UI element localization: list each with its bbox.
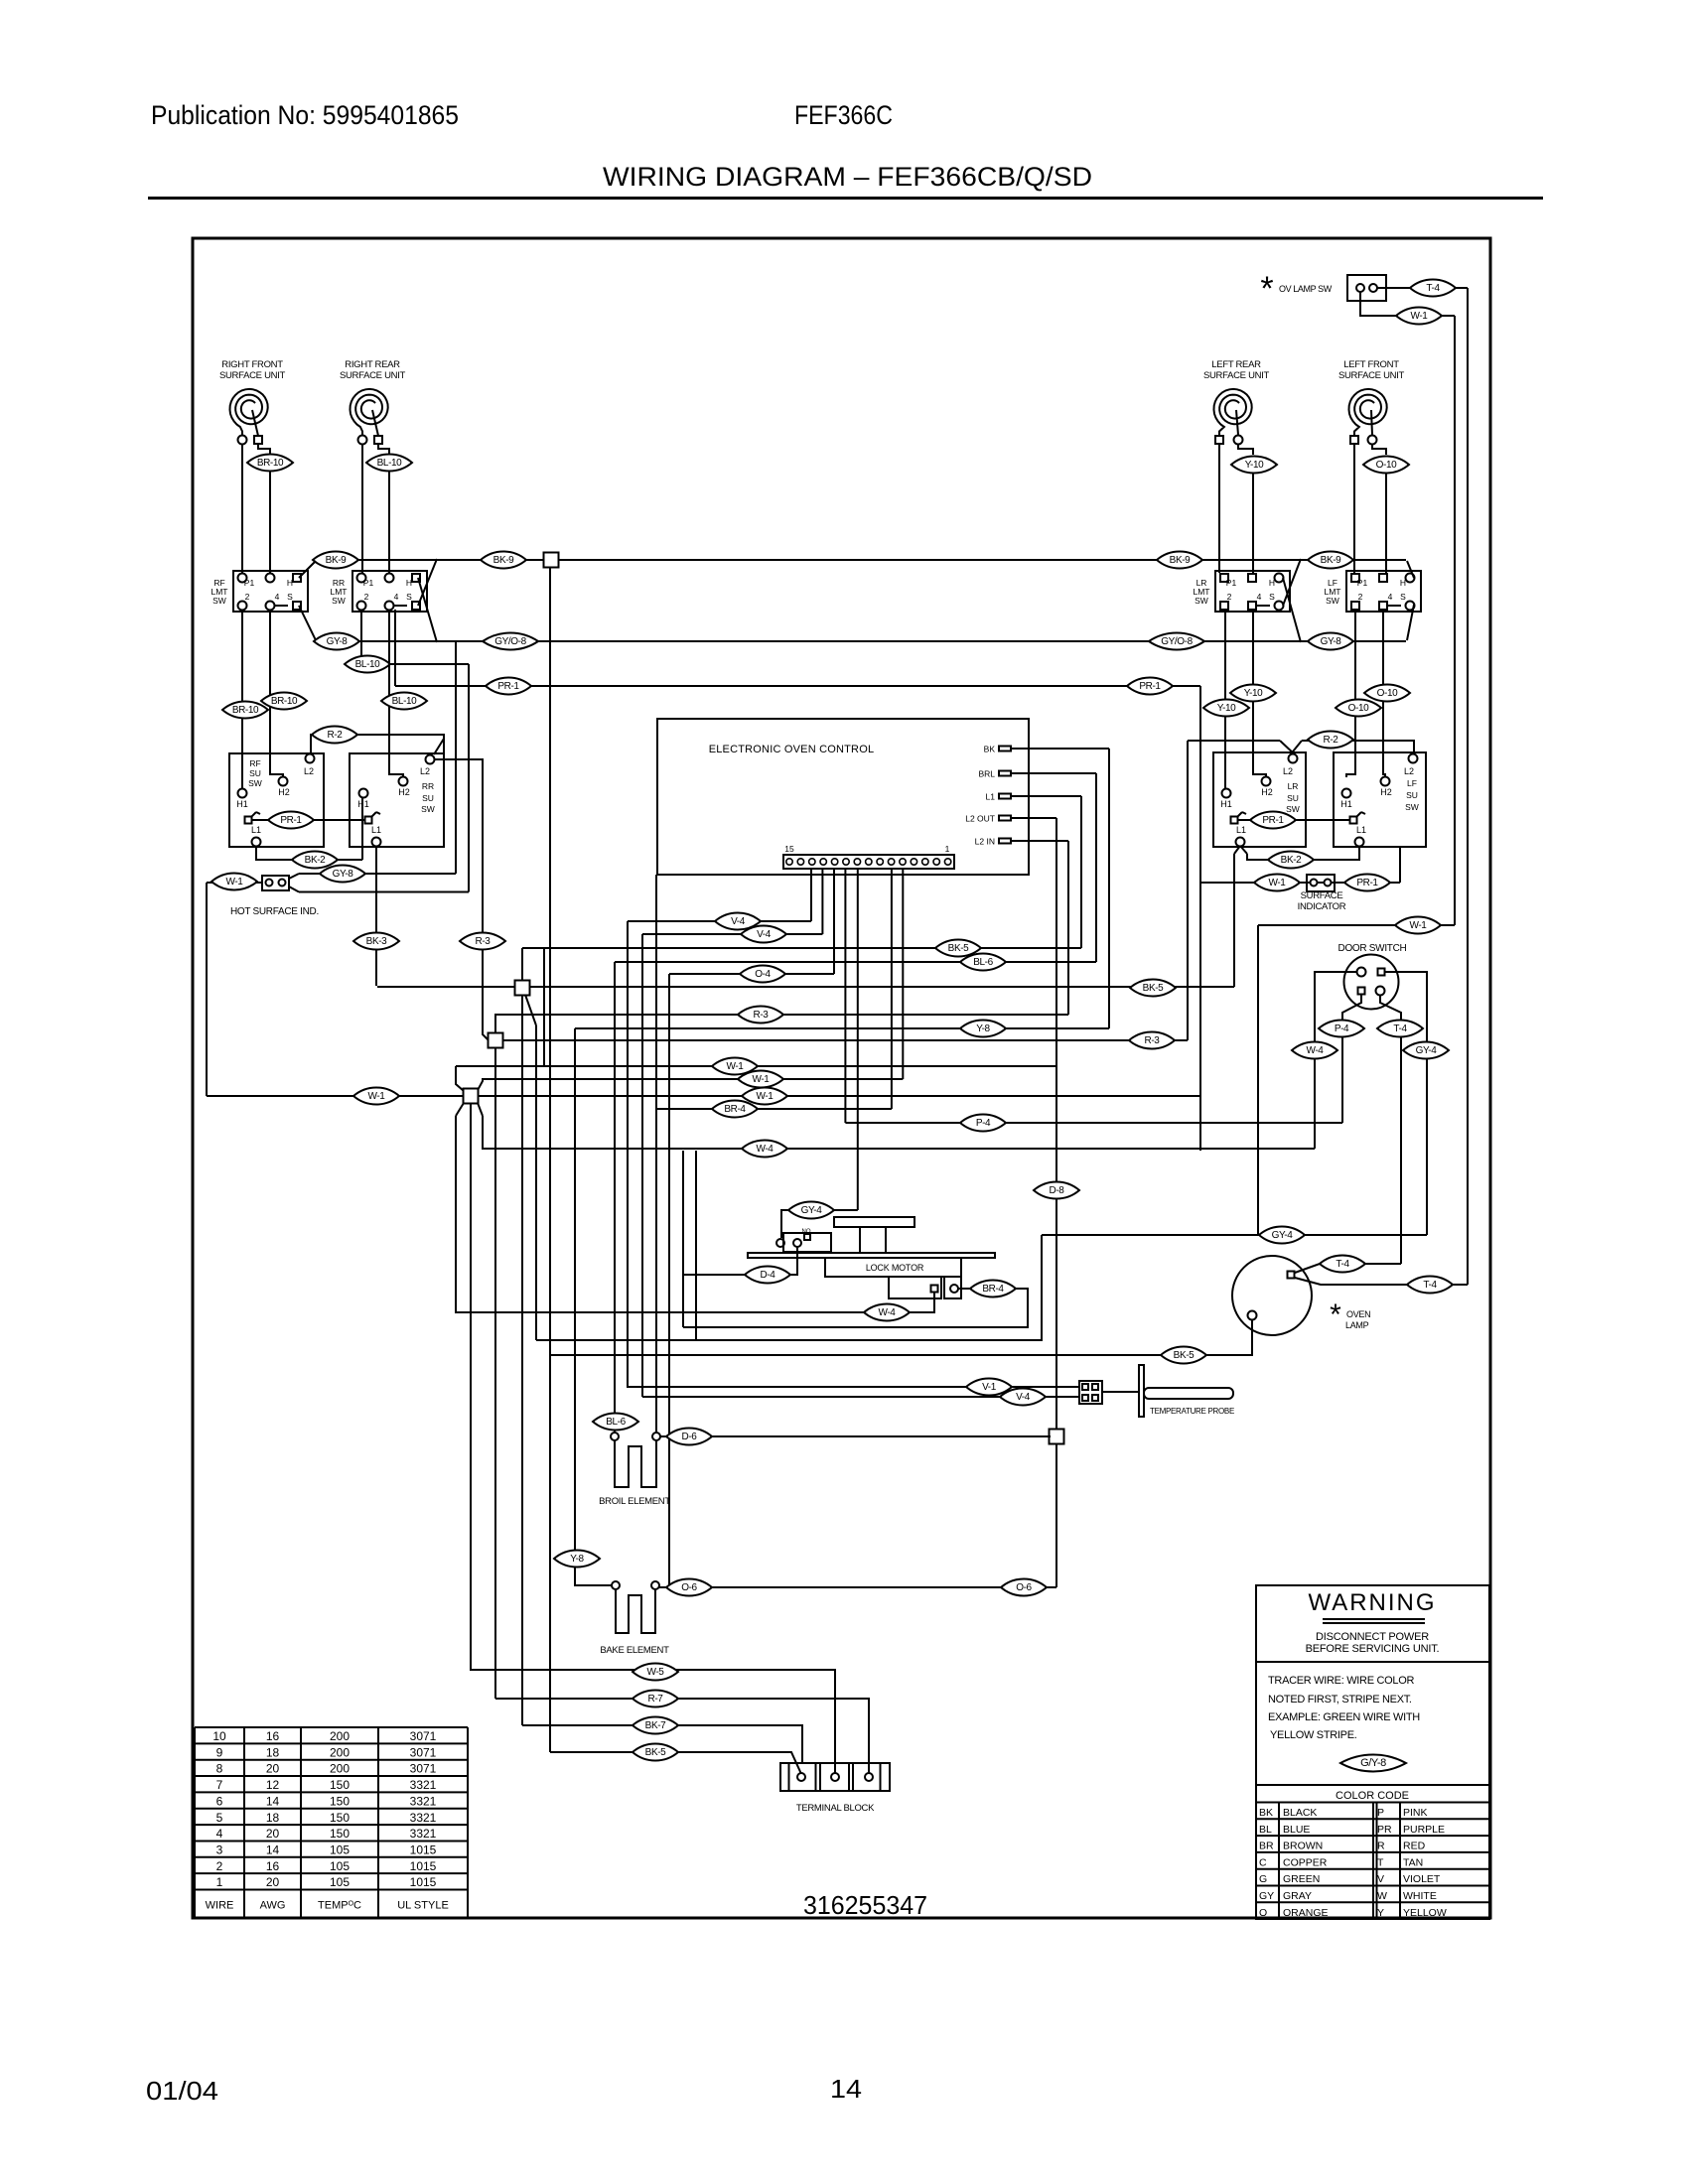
broil element left terminal: [611, 1433, 619, 1440]
svg-text:P-4: P-4: [1335, 1024, 1349, 1034]
wire 540 drop: [535, 1025, 537, 1340]
wire W-5 line: [470, 1670, 835, 1773]
oval Y-10 c: [1230, 685, 1276, 702]
svg-text:P1: P1: [244, 578, 255, 588]
svg-text:BR: BR: [1259, 1841, 1274, 1852]
wire surface indicator line: [1200, 882, 1400, 884]
svg-text:L2 IN: L2 IN: [975, 837, 995, 847]
oval BR-10 c: [261, 693, 307, 710]
RF limit switch H-S connections: [299, 561, 316, 578]
LF 4 stub: [1387, 605, 1401, 607]
svg-text:W-1: W-1: [226, 877, 244, 887]
svg-text:12: 12: [266, 1778, 280, 1792]
svg-text:SW: SW: [332, 596, 346, 606]
svg-text:H: H: [1400, 578, 1406, 588]
svg-text:G: G: [1259, 1873, 1267, 1885]
wire V-4 b line: [642, 933, 822, 935]
svg-text:BK-9: BK-9: [1170, 555, 1191, 566]
wire D-6 line: [660, 1435, 1051, 1437]
svg-text:BK-9: BK-9: [493, 555, 514, 566]
svg-text:*: *: [1330, 1298, 1341, 1331]
svg-text:5: 5: [216, 1811, 223, 1825]
svg-text:O-10: O-10: [1376, 460, 1397, 471]
svg-text:PURPLE: PURPLE: [1403, 1824, 1445, 1836]
warning box: [1256, 1585, 1489, 1919]
wire LF mid to H2 with O-10: [1383, 610, 1385, 777]
right front unit terminals: [238, 436, 247, 445]
svg-text:SU: SU: [1406, 790, 1418, 800]
temperature probe flange: [1139, 1365, 1144, 1417]
svg-text:H2: H2: [398, 787, 410, 797]
wire RR mid to H2 with BL-10: [389, 610, 403, 777]
oval W-1 hot surface: [211, 874, 257, 890]
wire BL-10 line: [361, 663, 469, 665]
wire R-3 long line right: [502, 1039, 1188, 1041]
svg-text:P1: P1: [1226, 578, 1237, 588]
svg-text:BK-5: BK-5: [1143, 983, 1164, 994]
svg-text:SU: SU: [422, 793, 434, 803]
wire PR-1 bus: [395, 685, 1200, 687]
svg-text:O-6: O-6: [1016, 1582, 1032, 1593]
svg-text:SURFACE UNIT: SURFACE UNIT: [1203, 370, 1270, 381]
svg-text:W-4: W-4: [879, 1307, 897, 1318]
svg-text:R-3: R-3: [476, 936, 492, 947]
svg-text:L1: L1: [1356, 825, 1366, 835]
svg-text:H1: H1: [1220, 799, 1232, 809]
svg-text:BL: BL: [1259, 1824, 1272, 1836]
svg-text:BR-10: BR-10: [271, 696, 298, 707]
oval D-6: [666, 1429, 712, 1445]
svg-text:GY-8: GY-8: [333, 869, 354, 880]
svg-text:AWG: AWG: [260, 1900, 286, 1912]
svg-text:SW: SW: [1286, 804, 1300, 814]
oval Y-8 b: [554, 1551, 600, 1568]
oval GY-4 door: [1403, 1042, 1449, 1059]
svg-text:BR-4: BR-4: [724, 1104, 746, 1115]
svg-text:TEMPOC: TEMPOC: [318, 1900, 361, 1912]
svg-text:H1: H1: [357, 799, 369, 809]
svg-text:SW: SW: [1405, 802, 1419, 812]
svg-text:H1: H1: [1340, 799, 1352, 809]
wire BK-5 line: [522, 947, 1081, 949]
oval O-10 b: [1336, 700, 1381, 717]
oval BL-10 right rear: [366, 455, 412, 472]
wire BK-5 bottom line: [550, 1752, 801, 1774]
oval O-10 c: [1364, 685, 1410, 702]
svg-text:COPPER: COPPER: [1283, 1856, 1328, 1868]
svg-text:V: V: [1377, 1873, 1384, 1885]
color code table: [1256, 1802, 1489, 1804]
svg-text:L1: L1: [1236, 825, 1246, 835]
svg-text:L1: L1: [371, 825, 381, 835]
svg-text:D-6: D-6: [682, 1432, 698, 1442]
svg-text:EXAMPLE: GREEN WIRE WIT: EXAMPLE: GREEN WIRE WITH: [1268, 1711, 1420, 1723]
wire door BL to P-4: [1342, 995, 1361, 1123]
svg-text:GY/O-8: GY/O-8: [494, 636, 526, 647]
wire BK bus long line: [377, 986, 1234, 988]
svg-text:6: 6: [216, 1794, 223, 1808]
svg-text:BK-7: BK-7: [645, 1720, 666, 1731]
svg-text:3321: 3321: [410, 1811, 437, 1825]
wire LR P1 to H1 with Y-10: [1224, 610, 1226, 788]
oven lamp terminal square: [1288, 1272, 1295, 1279]
svg-text:LOCK MOTOR: LOCK MOTOR: [866, 1263, 924, 1273]
svg-text:10: 10: [212, 1729, 226, 1743]
svg-text:L2: L2: [420, 766, 430, 776]
bake element right terminal: [651, 1581, 659, 1589]
svg-text:ELECTRONIC OVEN CONTROL: ELECTRONIC OVEN CONTROL: [709, 744, 875, 755]
svg-text:W-1: W-1: [757, 1091, 774, 1102]
oval O-10 left front: [1363, 457, 1409, 474]
temperature probe connector: [1079, 1381, 1102, 1404]
svg-text:COLOR CODE: COLOR CODE: [1336, 1790, 1409, 1802]
svg-text:BLACK: BLACK: [1283, 1807, 1317, 1819]
oval BK-3: [353, 933, 399, 950]
svg-text:105: 105: [330, 1843, 350, 1856]
svg-text:INDICATOR: INDICATOR: [1298, 901, 1346, 912]
lock motor bar: [748, 1253, 995, 1258]
svg-text:Y-10: Y-10: [1217, 703, 1236, 714]
wire BK-5 corner down to junction: [521, 948, 523, 981]
wire RF mid to H2 with BR-10: [270, 610, 283, 777]
oval W-1 c right: [742, 1088, 787, 1105]
svg-text:V-4: V-4: [1016, 1392, 1031, 1403]
right rear unit terminals: [358, 436, 367, 445]
oval W-1 door: [1395, 917, 1441, 934]
svg-text:316255347: 316255347: [803, 1890, 927, 1920]
svg-text:SU: SU: [249, 768, 261, 778]
svg-text:2: 2: [216, 1859, 223, 1873]
oval BR-10 right front: [247, 455, 293, 472]
svg-text:L1: L1: [251, 825, 261, 835]
LR limit switch box: [1215, 571, 1290, 612]
svg-text:YELLOW: YELLOW: [1403, 1907, 1447, 1919]
svg-text:4: 4: [394, 592, 399, 602]
wire Y-8 drop to bake: [574, 1028, 576, 1580]
svg-text:8: 8: [216, 1762, 223, 1776]
svg-text:T-4: T-4: [1426, 283, 1440, 294]
wire junction diagonal: [525, 995, 536, 1025]
wire GY-8 bus: [315, 640, 1406, 642]
wire PR-1 up into LF box: [1399, 847, 1401, 883]
svg-text:TERMINAL BLOCK: TERMINAL BLOCK: [796, 1803, 875, 1814]
wire door TL feed: [1315, 972, 1356, 1149]
svg-text:4: 4: [275, 592, 280, 602]
svg-text:01/04: 01/04: [146, 2076, 218, 2106]
svg-text:C: C: [1259, 1856, 1267, 1868]
svg-text:SW: SW: [212, 596, 226, 606]
svg-text:Y-8: Y-8: [570, 1554, 584, 1565]
svg-text:Publication No: 5995401865: Publication No: 5995401865: [151, 100, 459, 130]
oval BK-5 c: [1161, 1347, 1206, 1364]
svg-text:PR-1: PR-1: [497, 681, 519, 692]
svg-text:DOOR SWITCH: DOOR SWITCH: [1338, 943, 1407, 954]
svg-text:20: 20: [266, 1827, 280, 1841]
svg-text:S: S: [1269, 592, 1275, 602]
wire RF L1 to BK-2: [256, 846, 362, 860]
wire V-4 a line: [628, 920, 811, 922]
wire BK-9 bus: [315, 559, 1406, 561]
svg-text:S: S: [406, 592, 412, 602]
oval BL-10 c: [381, 693, 427, 710]
svg-text:SU: SU: [1287, 793, 1299, 803]
lock motor body: [825, 1258, 961, 1277]
svg-text:4: 4: [216, 1827, 223, 1841]
svg-text:GREEN: GREEN: [1283, 1873, 1320, 1885]
wire GY-4 from strip: [781, 1210, 858, 1238]
wire OV LAMP SW left terminal down: [1360, 292, 1455, 316]
svg-text:R-3: R-3: [1145, 1035, 1161, 1046]
wire LR unit to limit switch: [1218, 445, 1220, 573]
wire LF unit to limit switch: [1353, 445, 1355, 573]
wire LR mid to H2 with Y-10: [1253, 610, 1266, 777]
left rear unit terminals: [1215, 436, 1223, 444]
wire W-4 b: [455, 1293, 934, 1312]
svg-text:T: T: [1377, 1856, 1384, 1868]
svg-text:TEMPERATURE PROBE: TEMPERATURE PROBE: [1150, 1407, 1234, 1416]
wire V-4 b drop: [641, 934, 643, 1397]
svg-text:PR-1: PR-1: [280, 815, 302, 826]
svg-text:H1: H1: [236, 799, 248, 809]
svg-text:BK-5: BK-5: [1174, 1350, 1195, 1361]
svg-text:BR-10: BR-10: [257, 458, 284, 469]
svg-text:L2: L2: [1404, 766, 1414, 776]
svg-text:T-4: T-4: [1336, 1259, 1349, 1270]
oval G/Y-8 example: [1340, 1754, 1406, 1771]
wire lower from hot surface ind: [289, 887, 299, 892]
svg-text:VIOLET: VIOLET: [1403, 1873, 1441, 1885]
svg-text:2: 2: [1227, 592, 1232, 602]
wire W-1 a corner: [456, 1066, 464, 1091]
svg-text:O: O: [1259, 1907, 1267, 1919]
svg-text:H: H: [287, 578, 293, 588]
svg-text:H: H: [406, 578, 412, 588]
wire V-4 c line: [642, 1396, 1079, 1398]
svg-text:R: R: [1377, 1841, 1385, 1852]
wire L2 OUT pin down: [1055, 818, 1057, 1436]
svg-text:16: 16: [266, 1729, 280, 1743]
svg-text:BL-6: BL-6: [606, 1417, 626, 1428]
svg-text:200: 200: [330, 1745, 350, 1759]
svg-text:DISCONNECT POWER: DISCONNECT POWER: [1316, 1631, 1429, 1643]
oval BR-10 b: [222, 702, 268, 719]
surface indicator box: [1307, 875, 1335, 891]
svg-text:UL STYLE: UL STYLE: [397, 1900, 449, 1912]
bake element left terminal: [612, 1581, 620, 1589]
svg-text:BLUE: BLUE: [1283, 1824, 1310, 1836]
svg-text:L2 OUT: L2 OUT: [965, 814, 995, 824]
svg-text:Y: Y: [1377, 1907, 1384, 1919]
svg-text:P1: P1: [363, 578, 374, 588]
junction square mid: [515, 981, 530, 996]
svg-text:FEF366C: FEF366C: [794, 100, 893, 130]
svg-text:1: 1: [216, 1875, 223, 1889]
wire W-1 to lamp area: [1258, 924, 1455, 926]
svg-text:SURFACE UNIT: SURFACE UNIT: [1338, 370, 1405, 381]
svg-text:H2: H2: [1261, 787, 1273, 797]
LF limit switch crossover: [1407, 561, 1414, 578]
oval W-1 b: [738, 1071, 783, 1088]
oval BK-9 c: [1157, 552, 1202, 569]
wire RR 4 terminal stub: [393, 605, 407, 607]
wire BK-7 line: [522, 1725, 802, 1763]
wire 688 vertical: [682, 1151, 684, 1327]
svg-text:PR-1: PR-1: [1139, 681, 1161, 692]
svg-text:WHITE: WHITE: [1403, 1890, 1437, 1902]
wire BL-10 drop 472: [468, 664, 470, 892]
door switch terminal TR: [1378, 969, 1385, 976]
oval BK-2 right: [1268, 852, 1314, 869]
oval Y-10 left rear: [1231, 457, 1277, 474]
svg-text:O-10: O-10: [1348, 703, 1369, 714]
wire gauge table: [195, 1726, 468, 1728]
svg-text:D-4: D-4: [761, 1270, 776, 1281]
svg-text:WARNING: WARNING: [1308, 1589, 1436, 1616]
oval PR-1 surface indicator: [1344, 875, 1390, 891]
svg-text:W-4: W-4: [757, 1144, 774, 1155]
oval BK-9 a: [313, 552, 358, 569]
wire BK pin down: [1108, 749, 1110, 1028]
oval W-4 a: [742, 1141, 787, 1158]
wire lamp T-4 a: [1295, 1264, 1401, 1273]
wire Y-8 line: [575, 1027, 1109, 1029]
svg-text:WIRE: WIRE: [206, 1900, 234, 1912]
svg-text:BK: BK: [1259, 1807, 1273, 1819]
bake element: [616, 1589, 655, 1633]
oval GY-8 b: [1308, 633, 1353, 650]
left front unit terminals: [1350, 436, 1358, 444]
color code divider: [1256, 1784, 1489, 1786]
wire vertical 548: [543, 948, 545, 1066]
svg-text:BK-5: BK-5: [645, 1747, 666, 1758]
svg-text:SW: SW: [248, 778, 262, 788]
oval BK-5 d: [633, 1744, 678, 1761]
svg-text:18: 18: [266, 1811, 280, 1825]
svg-text:3321: 3321: [410, 1827, 437, 1841]
oval GY/O-8 b: [1149, 633, 1204, 650]
svg-text:BK-2: BK-2: [305, 855, 326, 866]
oval W-5: [633, 1664, 678, 1681]
svg-text:GY-4: GY-4: [1272, 1230, 1294, 1241]
wire V-1 line: [627, 1386, 1079, 1388]
svg-text:14: 14: [266, 1794, 280, 1808]
oval GY-4 b: [1259, 1227, 1305, 1244]
warning divider: [1256, 1661, 1489, 1663]
wire O-6 right vertical: [1055, 1443, 1057, 1587]
oval P-4 a: [960, 1115, 1006, 1132]
svg-text:LEFT FRONT: LEFT FRONT: [1343, 359, 1399, 370]
wire LF P1 to H1 with O-10: [1346, 610, 1355, 777]
lock motor switch housing: [783, 1233, 831, 1252]
oval V-4 b: [741, 926, 786, 943]
svg-text:OV LAMP SW: OV LAMP SW: [1279, 284, 1333, 294]
junction square BK-9: [544, 553, 559, 568]
svg-text:L2: L2: [304, 766, 314, 776]
wire W-1 drop 1267: [1257, 925, 1259, 1235]
wire 526 drop: [521, 995, 523, 1725]
svg-text:LAMP: LAMP: [1345, 1320, 1369, 1330]
X square diagonals down: [456, 1103, 464, 1116]
svg-text:1: 1: [945, 844, 950, 854]
door switch terminal BR: [1376, 987, 1385, 996]
oval BL-6 b: [593, 1414, 638, 1431]
wire R-2 left line: [311, 735, 444, 752]
lock motor lower box 1: [889, 1277, 941, 1298]
svg-text:YELLOW STRIPE.: YELLOW STRIPE.: [1270, 1729, 1357, 1741]
svg-text:BK-9: BK-9: [326, 555, 347, 566]
svg-text:R-3: R-3: [754, 1010, 770, 1021]
wire W-1 b line: [477, 1079, 903, 1092]
title underline: [148, 197, 1543, 200]
wire RR unit to limit switch: [361, 445, 363, 573]
oval BL-6 a: [960, 954, 1006, 971]
oval BR-4 a: [712, 1101, 758, 1118]
RR surface switch box: [350, 753, 444, 847]
wire W-1 c line: [207, 1095, 1201, 1097]
oval BK-5 a: [935, 940, 981, 957]
oval R-2 left: [312, 727, 357, 744]
svg-text:20: 20: [266, 1762, 280, 1776]
electronic oven control box: [657, 719, 1029, 875]
svg-text:H: H: [1269, 578, 1275, 588]
wire D-8 drop continues: [1034, 1182, 1079, 1199]
oval V-4 a: [715, 913, 761, 930]
oval BK-2 left: [292, 852, 338, 869]
EOC terminal strip: [783, 855, 954, 869]
oval R-3 b: [738, 1007, 783, 1024]
wire PR-1 line left end: [394, 610, 396, 686]
right front surface unit coil: [230, 389, 268, 435]
wire T-4 vertical right edge: [1467, 288, 1469, 1285]
svg-text:BK-3: BK-3: [366, 936, 387, 947]
lock motor cam: [834, 1217, 914, 1227]
svg-text:150: 150: [330, 1811, 350, 1825]
wire V-4 a drop: [627, 921, 629, 1387]
junction square D-6: [1050, 1430, 1064, 1444]
svg-text:PR-1: PR-1: [1356, 878, 1378, 888]
svg-text:*: *: [1260, 270, 1273, 308]
svg-text:BK-2: BK-2: [1281, 855, 1302, 866]
svg-text:BR-4: BR-4: [982, 1284, 1004, 1295]
oval BK-7: [633, 1717, 678, 1734]
svg-text:3071: 3071: [410, 1729, 437, 1743]
svg-text:W-1: W-1: [1269, 878, 1287, 888]
svg-text:BK: BK: [984, 745, 996, 754]
svg-text:20: 20: [266, 1875, 280, 1889]
svg-text:W: W: [1377, 1890, 1387, 1902]
LF limit switch box: [1346, 571, 1421, 612]
svg-text:Y-8: Y-8: [976, 1024, 990, 1034]
LR 4 stub: [1256, 605, 1270, 607]
wire GY-8 from hot surface ind: [289, 874, 299, 879]
door switch terminal BL: [1358, 988, 1365, 995]
wire GY-4 lamp line: [1042, 1234, 1427, 1236]
LR limit switch crossover: [1283, 578, 1301, 642]
oval BK-9 b: [481, 552, 526, 569]
svg-text:SW: SW: [421, 804, 435, 814]
wire RR P1 down to BL-10 line: [360, 610, 362, 664]
svg-text:L1: L1: [986, 792, 996, 802]
oval Y-10 b: [1203, 700, 1249, 717]
svg-text:ORANGE: ORANGE: [1283, 1907, 1329, 1919]
broil element right terminal: [652, 1433, 660, 1440]
RR limit switch box: [352, 571, 427, 612]
oval T-4 lamp switch: [1410, 280, 1456, 297]
svg-text:SURFACE: SURFACE: [1301, 890, 1343, 901]
oval GY-8 a: [314, 633, 359, 650]
svg-text:G/Y-8: G/Y-8: [1360, 1757, 1386, 1769]
svg-text:4: 4: [1257, 592, 1262, 602]
